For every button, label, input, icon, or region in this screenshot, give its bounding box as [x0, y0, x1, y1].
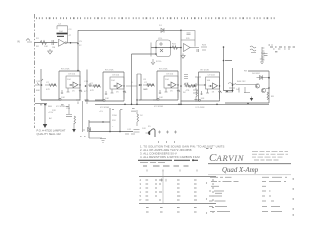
wire reverb drive [151, 47, 181, 49]
wire aux vertical D [224, 47, 233, 93]
title block right edge dots [206, 178, 294, 215]
pot VR2 network [137, 74, 141, 104]
LED DS1 [125, 133, 135, 135]
svg-text:4. ALL RESISTORS 1/4W 5% CARBO: 4. ALL RESISTORS 1/4W 5% CARBON FILM [140, 155, 200, 159]
channel stage 2 : op-amp U3B [85, 70, 126, 110]
capacitor C42 [134, 130, 151, 134]
PSU rectifier block [89, 120, 133, 138]
wire input to U1A [35, 42, 58, 44]
svg-text:Quad X-Amp: Quad X-Amp [222, 167, 259, 174]
border tick marks (top edge coordinate strip) [36, 17, 278, 19]
transformer T1 (AC symbol) [250, 46, 256, 53]
capacitor C1 [52, 40, 54, 45]
svg-text:10K: 10K [44, 46, 48, 48]
revision table bottom rule [139, 203, 216, 205]
capacitor C9 [187, 33, 191, 35]
input jack J1 [26, 39, 32, 43]
ground GND4 [251, 97, 253, 99]
output stage box [248, 71, 269, 103]
wire vertical bus A [77, 30, 79, 71]
wire arrow +15V feed [44, 104, 46, 125]
diode D3 [257, 75, 270, 80]
ground GND3 [260, 60, 264, 64]
svg-text:P: P [140, 198, 142, 202]
corner tick [206, 148, 212, 150]
connector P1 pins [262, 47, 264, 60]
capacitor C50 [66, 104, 72, 117]
channel stage 3 : op-amp U4A [139, 69, 180, 109]
jack S2 [166, 131, 169, 144]
feedback box U2 [181, 31, 195, 47]
resistor R52 [137, 110, 139, 126]
svg-text:35V: 35V [112, 120, 116, 122]
title block header rule [208, 174, 291, 176]
capacitor C40 [110, 108, 120, 132]
pot VR1 (rounded control box) [156, 40, 171, 57]
revision table column line [162, 170, 164, 203]
address block [252, 151, 288, 160]
svg-text:CARVIN: CARVIN [209, 152, 245, 164]
connector bracket P2 [80, 101, 86, 137]
svg-text:R 5%: R 5% [156, 61, 161, 63]
footswitch jack mark (dark) [148, 131, 150, 135]
transistor Q2 [261, 88, 265, 92]
wire U2A out [190, 47, 199, 49]
resistor R23 cluster [201, 47, 207, 50]
svg-text:1M: 1M [52, 47, 55, 49]
wire output network [225, 85, 256, 94]
input jack J2 [35, 79, 43, 85]
resistor R2 (bold) [57, 33, 68, 35]
svg-text:D6 W02: D6 W02 [252, 73, 261, 75]
diode D1 inline [161, 28, 164, 33]
plus mark in table [160, 179, 166, 182]
revision table top rule [139, 176, 216, 178]
svg-text:+15V: +15V [48, 112, 54, 114]
svg-text:QUALITY SEAL 102: QUALITY SEAL 102 [37, 132, 62, 136]
node +15V feed [44, 104, 46, 106]
rail stage1 left [41, 69, 59, 100]
wire stub left [150, 43, 152, 57]
notes text block [140, 145, 224, 160]
ground arrow GND5 [260, 53, 265, 59]
jack S1 [158, 131, 161, 144]
wire mix bus vertical C [180, 30, 182, 104]
resistor R50 with arrow [74, 116, 76, 129]
capacitor C30 [264, 54, 268, 56]
ground GND1 [48, 49, 53, 54]
note line 6 (light) [140, 162, 165, 164]
rail stage4 left [195, 100, 199, 102]
diode D5 [88, 127, 91, 131]
wire U1A output [67, 42, 78, 44]
transistor Q1 [255, 84, 259, 88]
svg-text:22K: 22K [52, 110, 56, 112]
ground GND6 [100, 139, 106, 143]
revision table rows [140, 178, 142, 202]
title block fields [209, 177, 287, 211]
revision table header [143, 165, 189, 167]
capacitor C10 [197, 49, 199, 52]
label below stage1 [40, 105, 69, 107]
svg-text:P.O. # 47520 LAMPSHT: P.O. # 47520 LAMPSHT [37, 129, 66, 133]
jack S3 [174, 131, 177, 144]
node rail junction [180, 30, 182, 32]
title block rule [208, 163, 291, 165]
wire mix bus vertical B [132, 54, 157, 104]
rail stage2 left [76, 70, 103, 101]
note line 5 (bold) [138, 159, 198, 161]
rail stage3 left [153, 99, 157, 101]
resistor R1 [40, 41, 47, 45]
coupling C14 [88, 83, 97, 87]
resistor R40 [267, 92, 269, 100]
channel stage 1 (use) : op-amp U3A [41, 69, 82, 109]
border dash-dot left margin line [34, 14, 36, 128]
coupling network R31 C15 [184, 83, 205, 87]
resistor R21 [172, 46, 178, 50]
op-amp U1A [59, 39, 65, 46]
wire top rail B+ [78, 29, 181, 31]
svg-text:VOL: VOL [158, 38, 163, 40]
svg-text:10V: 10V [142, 128, 146, 130]
coupling C17 [228, 83, 236, 88]
op-amp U2A [184, 44, 191, 52]
wire bottom bus [95, 103, 269, 104]
svg-text:68K: 68K [36, 90, 40, 92]
value labels below bus [112, 109, 136, 112]
power entry sub-circuit [35, 103, 47, 105]
svg-text:8R: 8R [271, 96, 274, 98]
svg-text:2200: 2200 [112, 115, 118, 117]
ground GND2 [181, 54, 185, 59]
svg-text:IN: IN [17, 40, 20, 44]
feedback loop wires U1A [57, 26, 68, 43]
node U1A out junction [70, 42, 72, 44]
net labels B+ GND [269, 45, 296, 47]
channel stage 4 : op-amp U4B [180, 70, 221, 110]
svg-text:R44 2K2: R44 2K2 [237, 81, 246, 83]
